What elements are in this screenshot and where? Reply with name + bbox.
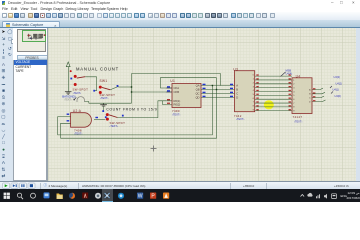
svg-text:CKB: CKB bbox=[174, 90, 180, 94]
svg-text:MANUAL COUNT: MANUAL COUNT bbox=[76, 66, 119, 71]
svg-text:A: A bbox=[236, 83, 238, 87]
svg-text:‹TEXT›: ‹TEXT› bbox=[64, 98, 72, 101]
svg-text:7490: 7490 bbox=[172, 108, 180, 112]
svg-text:U2:A: U2:A bbox=[73, 109, 82, 113]
svg-text:QC: QC bbox=[195, 91, 199, 95]
svg-text:SW1: SW1 bbox=[100, 78, 108, 82]
svg-text:QB: QB bbox=[196, 87, 200, 91]
svg-text:‹TEXT›: ‹TEXT› bbox=[110, 124, 118, 128]
svg-text:‹TEXT›: ‹TEXT› bbox=[236, 117, 244, 121]
svg-text:U4: U4 bbox=[296, 74, 301, 78]
svg-text:QD: QD bbox=[195, 95, 199, 99]
svg-text:U1: U1 bbox=[170, 78, 175, 82]
svg-text:D: D bbox=[236, 95, 238, 99]
svg-text:U3: U3 bbox=[233, 67, 238, 71]
svg-text:‹TEXT›: ‹TEXT› bbox=[100, 95, 108, 99]
svg-text:W: W bbox=[138, 193, 143, 199]
svg-text:B: B bbox=[236, 87, 238, 91]
svg-text:R0(1): R0(1) bbox=[174, 98, 181, 102]
svg-text:COUNT FROM 0 TO 15/9: COUNT FROM 0 TO 15/9 bbox=[106, 107, 157, 111]
svg-text:R0(2): R0(2) bbox=[174, 102, 181, 106]
svg-text:‹TEXT›: ‹TEXT› bbox=[172, 112, 180, 116]
svg-text:74147: 74147 bbox=[293, 115, 303, 119]
svg-text:CKA: CKA bbox=[174, 86, 180, 90]
svg-text:U4(3): U4(3) bbox=[334, 75, 341, 79]
svg-text:U4(2): U4(2) bbox=[336, 81, 343, 85]
svg-text:‹TEXT›: ‹TEXT› bbox=[74, 131, 82, 135]
svg-text:U4(1): U4(1) bbox=[333, 87, 340, 91]
svg-text:QA: QA bbox=[196, 83, 200, 87]
svg-text:C: C bbox=[236, 91, 238, 95]
svg-text:U4(0): U4(0) bbox=[335, 93, 342, 97]
svg-text:‹TEXT›: ‹TEXT› bbox=[294, 119, 302, 123]
